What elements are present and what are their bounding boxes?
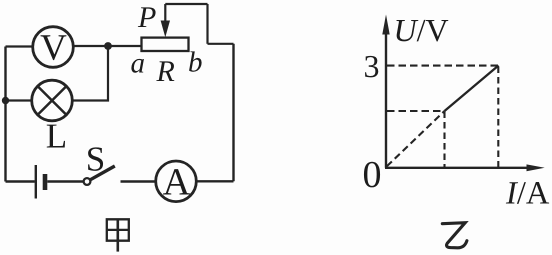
dashed mid horizontal bbox=[387, 110, 445, 112]
rheostat R body bbox=[142, 38, 189, 51]
svg-text:I/A: I/A bbox=[505, 176, 550, 212]
ammeter A bbox=[156, 161, 197, 203]
x-axis bbox=[385, 164, 545, 171]
junction node left bbox=[2, 97, 9, 104]
svg-text:S: S bbox=[86, 140, 105, 179]
svg-text:P: P bbox=[137, 1, 156, 34]
battery cell bbox=[36, 165, 45, 199]
wire top horizontal bbox=[165, 3, 207, 5]
wire voltmeter left bbox=[6, 45, 33, 47]
svg-text:a: a bbox=[131, 48, 146, 80]
dashed mid vertical bbox=[443, 112, 445, 168]
wire right vertical bbox=[232, 44, 234, 182]
svg-text:R: R bbox=[156, 55, 175, 88]
svg-text:U/V: U/V bbox=[394, 12, 449, 48]
svg-text:b: b bbox=[188, 47, 203, 79]
wire bottom left to battery bbox=[6, 180, 35, 182]
svg-text:0: 0 bbox=[363, 154, 382, 196]
wire lamp left bbox=[6, 99, 32, 101]
wire battery to switch bbox=[47, 180, 83, 182]
y-axis bbox=[382, 15, 389, 168]
svg-text:3: 3 bbox=[364, 48, 380, 84]
dashed vertical from top point bbox=[497, 67, 499, 168]
wire junction down to lamp bbox=[73, 46, 109, 101]
label yi (乙) bbox=[442, 223, 467, 248]
svg-text:L: L bbox=[46, 117, 67, 156]
junction node top bbox=[104, 42, 112, 50]
dashed diagonal bbox=[387, 111, 445, 166]
wire voltmeter right to rheostat a bbox=[74, 45, 142, 47]
dashed level 3 horizontal bbox=[387, 65, 499, 67]
lamp L bbox=[32, 80, 73, 121]
wire switch to ammeter bbox=[121, 180, 156, 182]
solid graph line bbox=[445, 66, 499, 112]
svg-text:A: A bbox=[163, 161, 191, 203]
wire ammeter right bbox=[197, 180, 234, 182]
wire slider drop vertical bbox=[206, 4, 208, 44]
wire to slider drop bbox=[208, 43, 234, 45]
wire left vertical bbox=[4, 47, 6, 182]
rheostat slider arrow P bbox=[161, 4, 170, 37]
voltmeter V bbox=[33, 27, 74, 69]
svg-text:V: V bbox=[40, 28, 67, 69]
switch S bbox=[84, 166, 115, 185]
label jia (甲) bbox=[107, 219, 129, 251]
